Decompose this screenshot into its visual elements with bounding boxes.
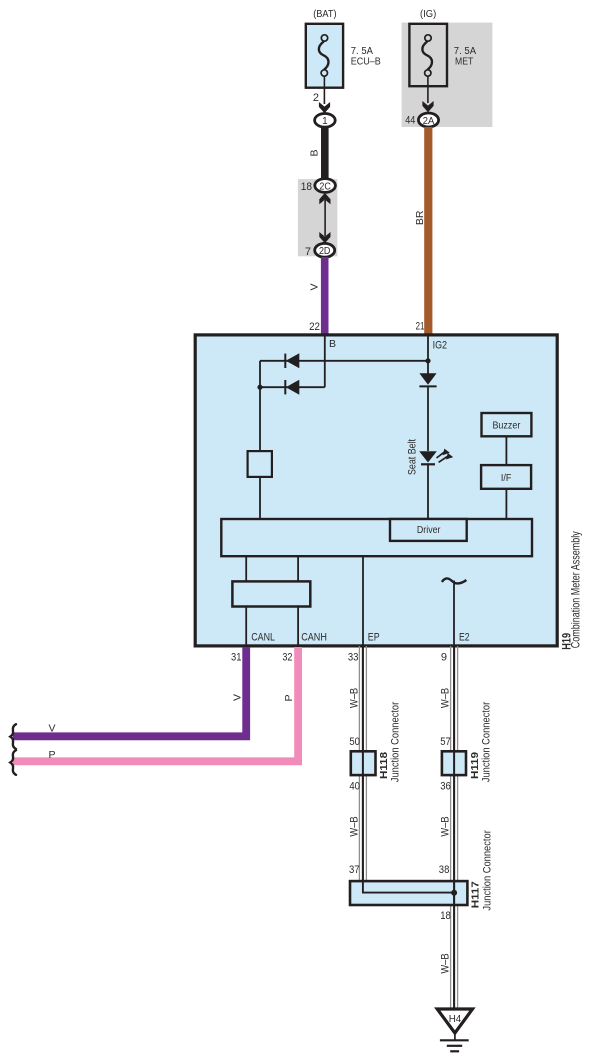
svg-text:W–B: W–B [440,816,452,836]
svg-text:2: 2 [313,92,319,104]
svg-text:V: V [49,722,56,734]
svg-text:(BAT): (BAT) [313,9,336,20]
svg-text:Driver: Driver [417,525,441,536]
svg-text:33: 33 [348,652,359,664]
svg-text:E2: E2 [459,632,470,644]
svg-text:W–B: W–B [348,688,360,708]
svg-text:9: 9 [441,652,447,664]
svg-text:ECU–B: ECU–B [351,56,381,67]
svg-text:W–B: W–B [440,688,452,708]
svg-text:P: P [49,749,56,761]
svg-text:50: 50 [349,736,360,748]
svg-text:B: B [308,149,320,156]
svg-text:2C: 2C [319,181,331,192]
svg-text:2A: 2A [423,116,435,127]
svg-text:31: 31 [231,652,241,664]
svg-text:BR: BR [414,210,426,225]
svg-text:H117: H117 [470,881,482,908]
svg-text:Seat Belt: Seat Belt [407,439,419,475]
svg-text:W–B: W–B [440,953,452,973]
svg-text:38: 38 [439,864,450,876]
svg-text:I/F: I/F [501,472,512,484]
svg-text:57: 57 [440,736,451,748]
svg-text:V: V [232,694,244,701]
svg-text:37: 37 [349,864,360,876]
svg-text:H4: H4 [449,1013,462,1025]
svg-text:P: P [283,694,295,701]
svg-text:W–B: W–B [348,816,360,836]
svg-text:32: 32 [282,652,292,664]
svg-text:(IG): (IG) [420,9,436,20]
svg-text:1: 1 [322,116,328,127]
svg-text:H118: H118 [378,752,390,779]
svg-text:Junction Connector: Junction Connector [481,702,493,783]
svg-text:18: 18 [440,910,451,922]
svg-text:7: 7 [305,246,311,258]
svg-text:H119: H119 [469,752,481,779]
svg-text:Junction Connector: Junction Connector [390,702,402,783]
svg-text:Combination Meter Assembly: Combination Meter Assembly [568,531,582,648]
svg-text:2D: 2D [319,246,331,257]
svg-text:CANL: CANL [251,632,275,644]
svg-text:MET: MET [455,56,473,67]
svg-text:18: 18 [301,181,312,193]
svg-text:IG2: IG2 [433,340,447,352]
svg-text:EP: EP [368,632,380,644]
svg-text:40: 40 [349,780,360,792]
svg-text:Junction Connector: Junction Connector [482,830,494,911]
svg-text:21: 21 [416,321,425,333]
svg-text:22: 22 [309,321,320,333]
svg-text:B: B [329,338,336,350]
svg-text:CANH: CANH [301,632,327,644]
svg-text:Buzzer: Buzzer [492,419,520,431]
svg-text:36: 36 [440,780,451,792]
svg-text:44: 44 [405,115,415,127]
svg-text:V: V [308,283,320,290]
